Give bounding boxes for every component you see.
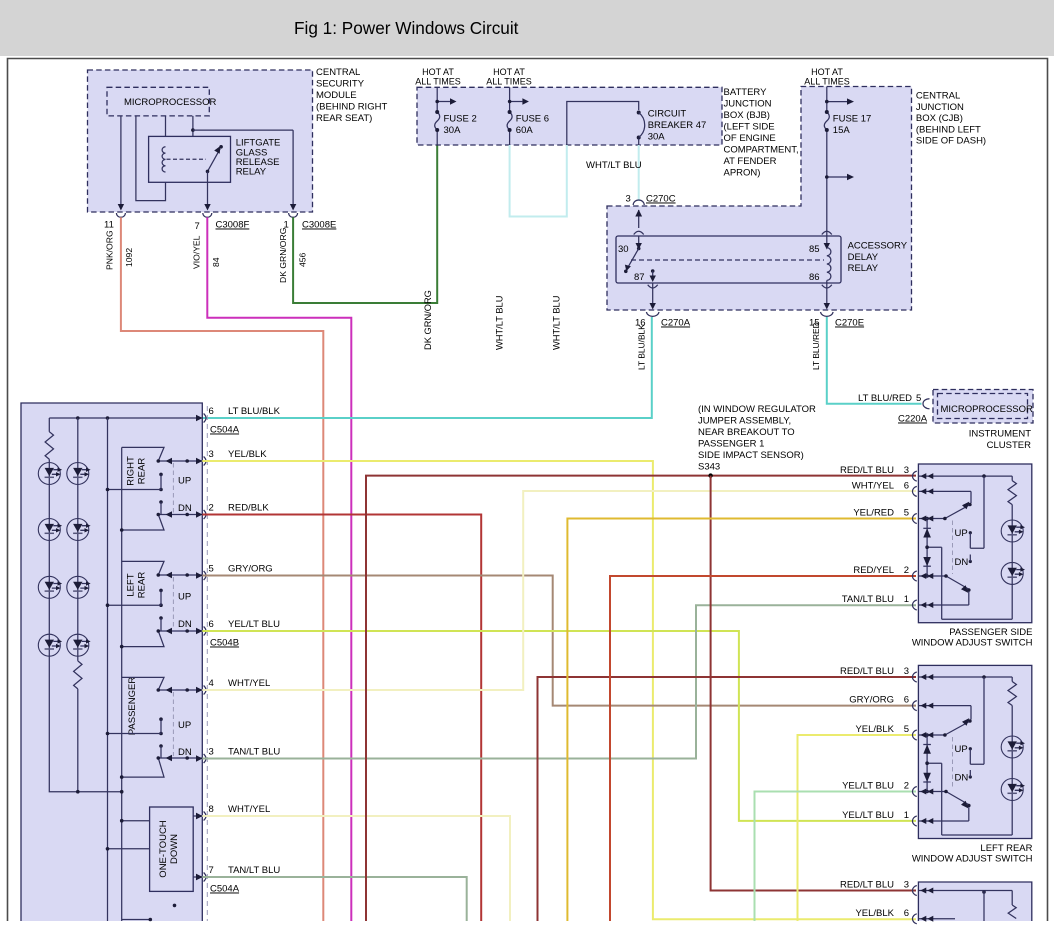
- liftgate glass release relay box: [149, 136, 281, 182]
- switch section RIGHT REAR: [106, 447, 203, 531]
- svg-text:87: 87: [634, 272, 645, 283]
- CSM wire micro to coil top: [165, 116, 167, 147]
- svg-text:BOX (CJB): BOX (CJB): [916, 113, 963, 124]
- internal riser wire to circuit breaker: [567, 102, 639, 146]
- svg-text:Fig 1: Power Windows Circuit: Fig 1: Power Windows Circuit: [294, 18, 519, 38]
- connector C270A: [635, 312, 691, 329]
- svg-text:VIO/YEL: VIO/YEL: [192, 235, 202, 269]
- svg-text:(IN WINDOW REGULATOR: (IN WINDOW REGULATOR: [698, 404, 816, 415]
- wire RED/LT BLU branch (S343 to right rear pin 3): [711, 476, 916, 891]
- svg-text:HOT AT: HOT AT: [422, 67, 454, 77]
- svg-text:RED/BLK: RED/BLK: [228, 503, 269, 514]
- svg-text:S343: S343: [698, 462, 720, 473]
- wire YEL/LT BLU (left rear pin 2, cut): [755, 792, 917, 922]
- passenger side window adjust switch pin entry: [912, 600, 933, 610]
- svg-text:C270E: C270E: [835, 318, 864, 329]
- left rear window adjust switch switch blade lower: [918, 790, 970, 821]
- svg-text:RED/YEL: RED/YEL: [853, 565, 894, 576]
- wire RED/BLK (master pin 2, cut at bottom): [202, 515, 481, 922]
- svg-text:3: 3: [209, 449, 214, 460]
- svg-text:MICROPROCESSOR: MICROPROCESSOR: [124, 97, 217, 108]
- svg-text:BOX (BJB): BOX (BJB): [724, 110, 770, 121]
- svg-text:JUNCTION: JUNCTION: [916, 102, 964, 113]
- svg-text:11: 11: [104, 220, 114, 231]
- svg-text:LEFT: LEFT: [126, 573, 137, 596]
- top bus wire: [49, 416, 202, 420]
- passenger side window adjust switch pin entry: [912, 486, 933, 496]
- svg-text:5: 5: [904, 724, 909, 735]
- passenger side window adjust switch switch blade upper: [918, 491, 971, 520]
- svg-text:3: 3: [904, 880, 909, 891]
- svg-text:CIRCUIT: CIRCUIT: [648, 109, 687, 120]
- svg-text:5: 5: [916, 393, 921, 404]
- svg-text:3: 3: [209, 747, 214, 758]
- svg-text:BATTERY: BATTERY: [724, 87, 768, 98]
- right rear window adjust switch internal feed: [918, 890, 1016, 921]
- HOT AT ALL TIMES label (fuse 17): [804, 67, 850, 87]
- svg-text:LT BLU/BLK: LT BLU/BLK: [637, 324, 647, 370]
- passenger side window adjust switch dn contact: [955, 555, 972, 569]
- svg-text:YEL/RED: YEL/RED: [853, 508, 894, 519]
- svg-text:85: 85: [809, 244, 820, 255]
- accessory delay relay box: [616, 236, 908, 283]
- svg-text:SIDE IMPACT SENSOR): SIDE IMPACT SENSOR): [698, 450, 804, 461]
- left rear window adjust switch pin entry: [912, 816, 933, 826]
- connector C504 dashed line: [206, 406, 208, 921]
- svg-text:DN: DN: [955, 557, 969, 568]
- wire YEL/LT BLU (master pin 6 to left rear pin 1): [202, 631, 916, 821]
- svg-text:TAN/LT BLU: TAN/LT BLU: [842, 594, 894, 605]
- relay terminal arcs: [634, 231, 832, 288]
- svg-text:WINDOW ADJUST SWITCH: WINDOW ADJUST SWITCH: [912, 638, 1033, 649]
- svg-text:C220A: C220A: [898, 414, 928, 425]
- svg-text:(LEFT SIDE: (LEFT SIDE: [724, 122, 775, 133]
- wire WHT/YEL (master pin 4 to passenger pin 6): [202, 491, 916, 690]
- passenger side window adjust switch pin entry: [912, 571, 933, 581]
- connector C270E: [809, 312, 864, 329]
- svg-text:ALL TIMES: ALL TIMES: [415, 77, 461, 87]
- svg-text:REAR: REAR: [137, 458, 148, 485]
- svg-text:JUNCTION: JUNCTION: [724, 99, 772, 110]
- left rear window adjust switch feed and lamp circuit: [918, 675, 1025, 835]
- pin 1 connector C3008E: [284, 213, 337, 231]
- svg-text:DN: DN: [178, 747, 192, 758]
- svg-text:7: 7: [209, 865, 214, 876]
- pin 5 GRY/ORG master switch: [196, 564, 273, 581]
- CSM relay switch wire to pin 7: [204, 171, 210, 210]
- svg-text:WINDOW ADJUST SWITCH: WINDOW ADJUST SWITCH: [912, 854, 1033, 865]
- left rear switch pin labels: [840, 666, 909, 821]
- bus B vertical: [120, 447, 124, 921]
- pin 8 WHT/YEL master switch: [196, 804, 270, 821]
- left rear window adjust switch diodes: [923, 733, 931, 793]
- svg-text:OF ENGINE: OF ENGINE: [724, 133, 776, 144]
- svg-text:PASSENGER 1: PASSENGER 1: [698, 439, 764, 450]
- central security module box: [88, 70, 313, 212]
- svg-text:6: 6: [209, 406, 214, 417]
- left rear window adjust switch caption: [912, 843, 1033, 865]
- svg-text:NEAR BREAKOUT TO: NEAR BREAKOUT TO: [698, 427, 795, 438]
- left rear window adjust switch up contact: [955, 677, 985, 764]
- right rear switch pin labels: [840, 880, 909, 919]
- svg-text:30A: 30A: [648, 132, 666, 143]
- svg-text:TAN/LT BLU: TAN/LT BLU: [228, 865, 280, 876]
- svg-text:ALL TIMES: ALL TIMES: [486, 77, 532, 87]
- svg-text:YEL/LT BLU: YEL/LT BLU: [228, 619, 280, 630]
- rotated label DK GRN/ORG (fuse 2 drop): [423, 290, 433, 350]
- svg-text:15A: 15A: [833, 125, 851, 136]
- passenger side window adjust switch switch blade lower: [918, 574, 970, 605]
- svg-text:2: 2: [904, 781, 909, 792]
- svg-text:LT BLU/RED: LT BLU/RED: [811, 322, 821, 370]
- OTD input wires: [106, 819, 150, 851]
- svg-text:BREAKER 47: BREAKER 47: [648, 120, 707, 131]
- svg-text:DN: DN: [178, 619, 192, 630]
- BJB label text: [724, 87, 799, 179]
- left rear window adjust switch dn contact: [955, 770, 972, 784]
- svg-text:1: 1: [904, 594, 909, 605]
- svg-text:86: 86: [809, 272, 820, 283]
- svg-text:WHT/YEL: WHT/YEL: [228, 804, 270, 815]
- wire YEL/RED (passenger pin 5, cut): [567, 519, 916, 922]
- svg-text:PASSENGER SIDE: PASSENGER SIDE: [949, 627, 1032, 638]
- left rear window adjust switch dashed link: [952, 737, 954, 790]
- relay pin 30 and switch: [618, 236, 642, 273]
- svg-text:MICROPROCESSOR: MICROPROCESSOR: [941, 404, 1034, 415]
- svg-text:REAR SEAT): REAR SEAT): [316, 113, 372, 124]
- svg-text:UP: UP: [178, 475, 191, 486]
- HOT AT ALL TIMES label (fuse 6): [486, 67, 532, 87]
- svg-text:UP: UP: [955, 744, 968, 755]
- svg-text:RIGHT: RIGHT: [126, 456, 137, 486]
- svg-text:4: 4: [209, 678, 214, 689]
- svg-text:DELAY: DELAY: [848, 252, 879, 263]
- circuit breaker 47 30A: [637, 109, 707, 146]
- svg-text:YEL/BLK: YEL/BLK: [855, 724, 894, 735]
- svg-text:30A: 30A: [444, 125, 462, 136]
- passenger switch pin labels: [840, 465, 909, 605]
- pin 6 LT BLU/BLK master switch: [196, 406, 281, 436]
- passenger side window adjust switch diodes: [923, 517, 931, 578]
- svg-text:C270A: C270A: [661, 318, 691, 329]
- svg-text:RED/LT BLU: RED/LT BLU: [840, 666, 894, 677]
- svg-text:(BEHIND LEFT: (BEHIND LEFT: [916, 124, 981, 135]
- wire WHT/YEL (one-touch down pin 8, cut): [202, 816, 510, 921]
- svg-text:INSTRUMENT: INSTRUMENT: [969, 429, 1031, 440]
- svg-text:C270C: C270C: [646, 194, 676, 205]
- svg-text:1: 1: [904, 810, 909, 821]
- svg-text:WHT/LT BLU: WHT/LT BLU: [552, 296, 562, 350]
- fuse 6 60A: [507, 87, 549, 145]
- svg-text:APRON): APRON): [724, 168, 761, 179]
- battery junction box (BJB): [417, 87, 722, 145]
- svg-text:DN: DN: [955, 773, 969, 784]
- relay pin 87: [634, 269, 656, 309]
- connector C270C: [626, 194, 676, 229]
- svg-text:CENTRAL: CENTRAL: [316, 67, 360, 78]
- svg-text:6: 6: [209, 619, 214, 630]
- svg-text:GRY/ORG: GRY/ORG: [228, 564, 273, 575]
- master window switch box: [21, 403, 202, 921]
- svg-text:5: 5: [209, 564, 214, 575]
- passenger side window adjust switch caption: [912, 627, 1033, 649]
- svg-text:SECURITY: SECURITY: [316, 79, 365, 90]
- svg-text:ALL TIMES: ALL TIMES: [804, 77, 850, 87]
- wire LT BLU/RED (C270E to cluster): [811, 317, 922, 404]
- passenger side window adjust switch dashed link: [952, 521, 954, 575]
- relay coil 85-86: [809, 229, 831, 310]
- passenger side window adjust switch box: [918, 464, 1031, 623]
- svg-text:DN: DN: [178, 503, 192, 514]
- fuse 2 30A: [435, 87, 477, 145]
- passenger side window adjust switch feed and lamp circuit: [918, 474, 1025, 619]
- OTD output wires to pins 8 and 7: [193, 813, 202, 880]
- wire TAN/LT BLU (master pin 3 to passenger pin 1): [202, 605, 916, 758]
- svg-text:8: 8: [209, 804, 214, 815]
- left rear window adjust switch box: [918, 665, 1031, 838]
- svg-text:DK GRN/ORG: DK GRN/ORG: [278, 227, 288, 283]
- left rear window adjust switch pin entry: [912, 672, 933, 682]
- pin 2 RED/BLK master switch: [196, 503, 269, 520]
- svg-text:LT BLU/BLK: LT BLU/BLK: [228, 406, 281, 417]
- passenger side window adjust switch up contact: [955, 476, 985, 548]
- LED column left: [38, 463, 121, 792]
- svg-text:456: 456: [298, 252, 308, 267]
- svg-text:RELAY: RELAY: [848, 263, 879, 274]
- wire TAN/LT BLU (one-touch down pin 7, cut): [202, 877, 466, 921]
- microprocessor U1 box (CSM): [107, 87, 217, 116]
- svg-text:(BEHIND RIGHT: (BEHIND RIGHT: [316, 102, 387, 113]
- pin 11 connector C3008: [104, 213, 125, 231]
- left rear window adjust switch pin entry: [912, 701, 933, 711]
- svg-text:TAN/LT BLU: TAN/LT BLU: [228, 747, 280, 758]
- CSM wire micro to coil bottom loop: [136, 116, 166, 201]
- svg-text:COMPARTMENT,: COMPARTMENT,: [724, 145, 799, 156]
- svg-text:2: 2: [209, 503, 214, 514]
- svg-text:LT BLU/RED: LT BLU/RED: [858, 393, 912, 404]
- svg-text:ACCESSORY: ACCESSORY: [848, 241, 908, 252]
- fuse 17 15A: [824, 87, 871, 230]
- bottom cut wires and stray junction: [122, 904, 177, 922]
- svg-text:C3008E: C3008E: [302, 220, 336, 231]
- svg-text:LEFT REAR: LEFT REAR: [980, 843, 1032, 854]
- svg-text:3: 3: [626, 194, 631, 205]
- pin 7 connector C3008F: [195, 213, 250, 232]
- svg-text:AT FENDER: AT FENDER: [724, 156, 777, 167]
- pin 4 WHT/YEL master switch: [196, 678, 270, 695]
- switch section PASSENGER: [106, 677, 203, 779]
- svg-text:PASSENGER: PASSENGER: [127, 677, 138, 736]
- switch section LEFT REAR: [106, 561, 203, 648]
- svg-text:REAR: REAR: [137, 572, 148, 599]
- svg-text:6: 6: [904, 908, 909, 919]
- svg-text:RED/LT BLU: RED/LT BLU: [840, 465, 894, 476]
- CJB label text: [916, 91, 986, 147]
- wire VIO/YEL 84: [192, 217, 352, 921]
- wire YEL/BLK (left rear pin 5, cut): [798, 735, 917, 921]
- svg-text:JUMPER ASSEMBLY,: JUMPER ASSEMBLY,: [698, 416, 791, 427]
- splice S343: [708, 473, 712, 477]
- svg-text:84: 84: [211, 257, 221, 267]
- wire RED/LT BLU (left rear pin 3, cut): [538, 677, 917, 921]
- instrument cluster box: [933, 390, 1033, 452]
- svg-text:UP: UP: [178, 591, 191, 602]
- svg-text:FUSE 6: FUSE 6: [516, 114, 549, 125]
- passenger side window adjust switch pin entry: [912, 514, 933, 524]
- svg-text:GRY/ORG: GRY/ORG: [849, 695, 894, 706]
- wire LT BLU/BLK (C270A to master switch): [202, 317, 652, 418]
- svg-text:PNK/ORG: PNK/ORG: [105, 230, 115, 270]
- right rear window adjust switch box: [918, 882, 1031, 921]
- wire YEL/BLK (master pin 3 to right rear switch pin 6): [202, 461, 916, 919]
- svg-text:WHT/YEL: WHT/YEL: [852, 480, 894, 491]
- svg-text:ONE-TOUCH: ONE-TOUCH: [158, 820, 169, 877]
- svg-text:5: 5: [904, 508, 909, 519]
- svg-text:6: 6: [904, 480, 909, 491]
- passenger side window adjust switch pin entry: [912, 471, 933, 481]
- resistor R-right: [74, 656, 82, 794]
- relay internal dashed link: [631, 259, 824, 261]
- right rear window adjust switch pin entry: [912, 914, 933, 924]
- left rear window adjust switch pin entry: [912, 730, 933, 740]
- one-touch down box: [150, 807, 194, 891]
- resistor R-left: [45, 418, 53, 463]
- wire WHT/LT BLU (fuse 6 loop): [495, 145, 567, 350]
- svg-text:30: 30: [618, 244, 629, 255]
- svg-text:CENTRAL: CENTRAL: [916, 91, 960, 102]
- pin 3 YEL/BLK master switch: [196, 449, 267, 466]
- svg-text:RELAY: RELAY: [236, 167, 267, 178]
- pin 3 TAN/LT BLU master switch: [196, 747, 280, 764]
- bus A vertical: [107, 418, 109, 921]
- wire RED/YEL (passenger pin 2, cut): [610, 576, 916, 921]
- right rear window adjust switch pin entry: [912, 886, 933, 896]
- wire RED/LT BLU (to passenger pin 3): [366, 476, 916, 921]
- left rear window adjust switch pin entry: [912, 787, 933, 797]
- wire PNK/ORG 1092: [105, 217, 324, 921]
- svg-text:MODULE: MODULE: [316, 90, 357, 101]
- title bar: [0, 0, 1054, 56]
- wire DK GRN/ORG 456: [278, 145, 437, 303]
- window regulator note text: [698, 404, 816, 473]
- svg-text:1092: 1092: [124, 248, 134, 267]
- svg-text:YEL/LT BLU: YEL/LT BLU: [842, 810, 894, 821]
- svg-text:CLUSTER: CLUSTER: [987, 440, 1031, 451]
- svg-text:C3008F: C3008F: [216, 220, 250, 231]
- svg-text:C504A: C504A: [210, 425, 240, 436]
- pin 7 TAN/LT BLU master switch: [196, 865, 280, 895]
- svg-text:DOWN: DOWN: [169, 834, 180, 864]
- svg-text:C504B: C504B: [210, 638, 239, 649]
- LED column right: [67, 418, 91, 656]
- CSM wire micro to switch feed and pin 1: [190, 116, 297, 211]
- svg-text:WHT/LT BLU: WHT/LT BLU: [495, 296, 505, 350]
- svg-text:6: 6: [904, 695, 909, 706]
- connector C220A pin 5: [898, 393, 930, 425]
- svg-text:HOT AT: HOT AT: [493, 67, 525, 77]
- wire WHT/LT BLU (breaker to C270C): [586, 145, 642, 201]
- svg-text:FUSE 17: FUSE 17: [833, 114, 872, 125]
- svg-text:WHT/LT BLU: WHT/LT BLU: [586, 160, 642, 171]
- svg-text:YEL/LT BLU: YEL/LT BLU: [842, 781, 894, 792]
- svg-text:YEL/BLK: YEL/BLK: [228, 449, 267, 460]
- svg-text:60A: 60A: [516, 125, 534, 136]
- CSM wire to pin 11: [118, 116, 124, 211]
- svg-text:UP: UP: [178, 720, 191, 731]
- svg-text:YEL/BLK: YEL/BLK: [855, 908, 894, 919]
- svg-text:3: 3: [904, 465, 909, 476]
- central junction box CJB and accessory delay relay region: [607, 87, 912, 311]
- svg-text:RED/LT BLU: RED/LT BLU: [840, 880, 894, 891]
- left rear window adjust switch switch blade upper: [918, 706, 971, 737]
- svg-text:FUSE 2: FUSE 2: [444, 114, 477, 125]
- svg-text:7: 7: [195, 221, 200, 232]
- svg-text:HOT AT: HOT AT: [811, 67, 843, 77]
- HOT AT ALL TIMES label (fuse 2): [415, 67, 461, 87]
- wire GRY/ORG (master pin 5 to left rear pin 6): [202, 576, 916, 706]
- CSM label text: [316, 67, 387, 124]
- svg-text:3: 3: [904, 666, 909, 677]
- svg-text:UP: UP: [955, 528, 968, 539]
- svg-text:DK GRN/ORG: DK GRN/ORG: [423, 290, 433, 350]
- svg-text:C504A: C504A: [210, 884, 240, 895]
- svg-text:2: 2: [904, 565, 909, 576]
- svg-text:WHT/YEL: WHT/YEL: [228, 678, 270, 689]
- pin 6 YEL/LT BLU master switch: [196, 619, 280, 649]
- svg-text:SIDE OF DASH): SIDE OF DASH): [916, 136, 986, 147]
